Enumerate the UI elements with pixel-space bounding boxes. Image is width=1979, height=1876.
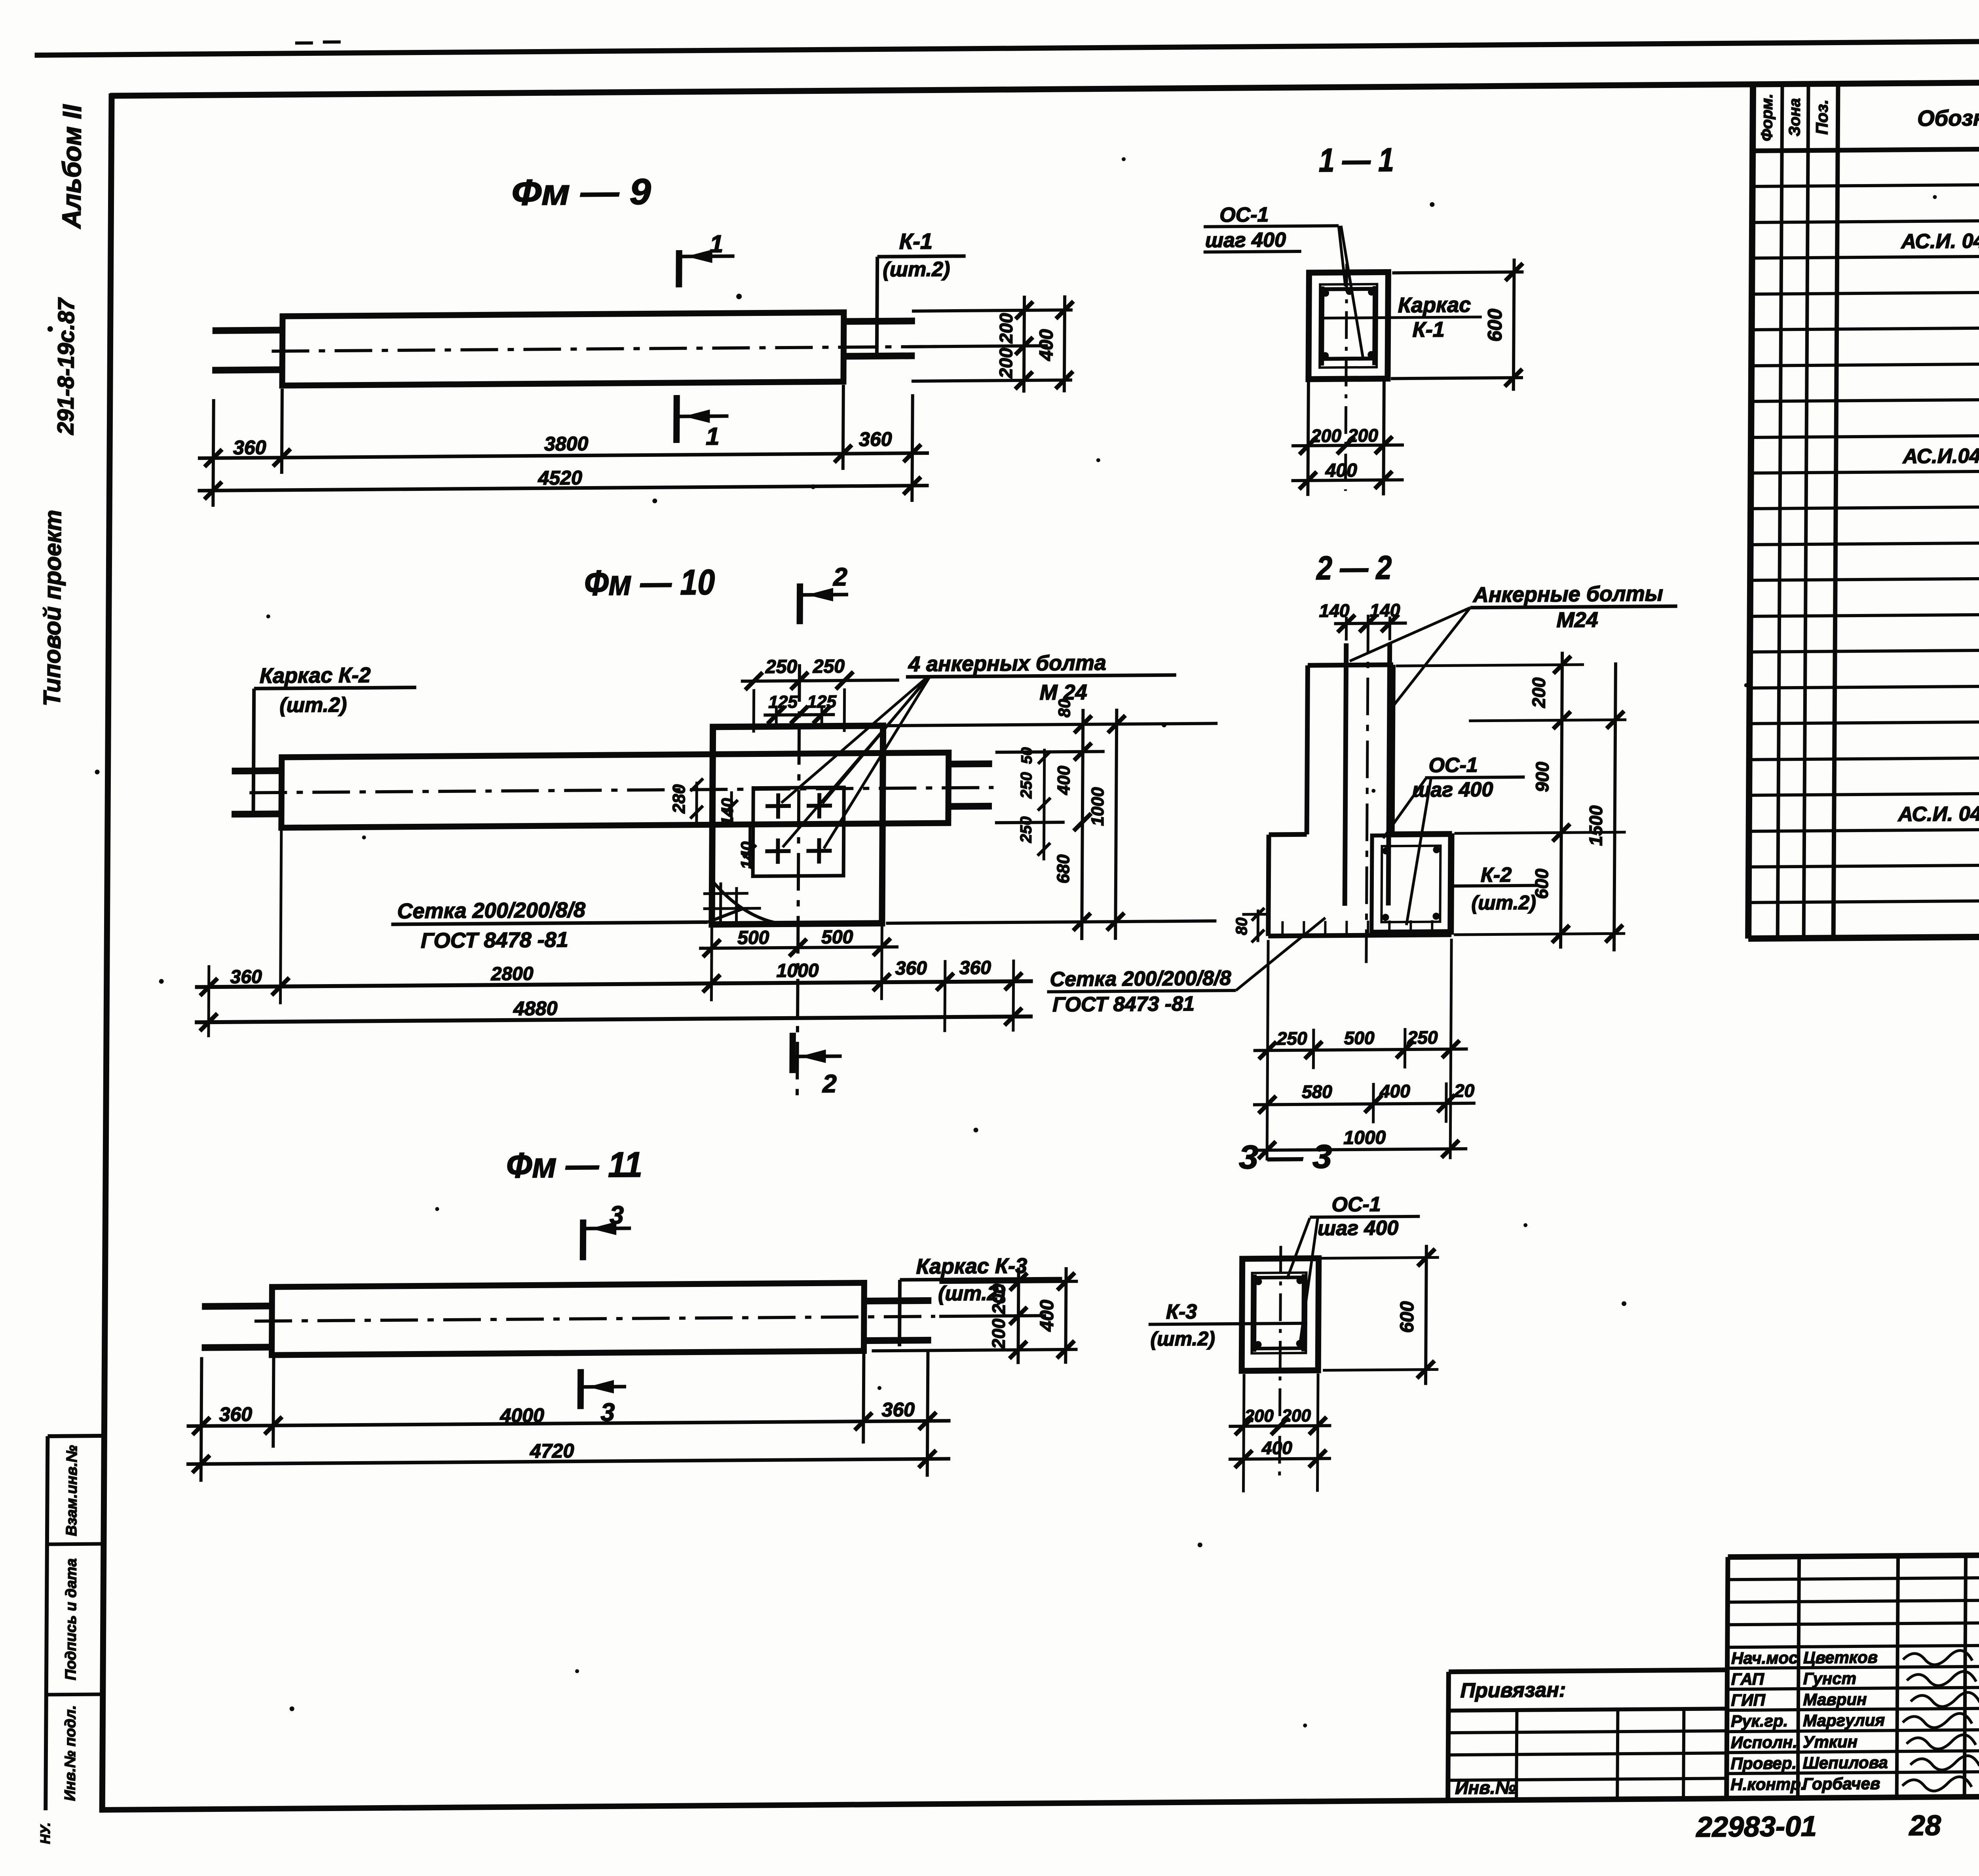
- svg-text:Горбачев: Горбачев: [1802, 1774, 1880, 1793]
- svg-text:580: 580: [1302, 1081, 1332, 1102]
- svg-text:200: 200: [995, 348, 1016, 379]
- svg-text:Фм — 10: Фм — 10: [584, 563, 715, 603]
- svg-text:НУ.: НУ.: [38, 1823, 53, 1844]
- svg-text:1000: 1000: [1343, 1127, 1386, 1148]
- svg-text:Исполн.: Исполн.: [1731, 1733, 1797, 1752]
- svg-text:Нач.мос: Нач.мос: [1731, 1648, 1798, 1667]
- 2-2 dim 200/900/600: [1561, 652, 1562, 948]
- svg-text:200: 200: [1528, 677, 1549, 709]
- svg-text:3 — 3: 3 — 3: [1239, 1138, 1332, 1176]
- svg-text:Каркас: Каркас: [1398, 293, 1471, 317]
- svg-text:Сетка 200/200/8/8: Сетка 200/200/8/8: [397, 898, 585, 923]
- svg-text:Инв.№: Инв.№: [1455, 1777, 1516, 1798]
- svg-text:400: 400: [1036, 329, 1057, 361]
- svg-text:Альбом II: Альбом II: [57, 104, 87, 229]
- svg-text:К-3: К-3: [1166, 1300, 1197, 1324]
- 3-3 dim 600: [1322, 1257, 1439, 1258]
- svg-text:Поз.: Поз.: [1812, 99, 1831, 135]
- Фм-11 bottom extension lines: [201, 1357, 202, 1482]
- svg-text:3800: 3800: [544, 433, 589, 455]
- svg-text:(шт.2): (шт.2): [1150, 1327, 1215, 1350]
- section mark 3 (top): [580, 1220, 587, 1260]
- svg-text:К-1: К-1: [1412, 317, 1445, 342]
- svg-text:ГИП: ГИП: [1731, 1691, 1765, 1710]
- section mark 1 (bottom): [673, 395, 680, 443]
- svg-text:400: 400: [1379, 1081, 1410, 1102]
- svg-text:Н.контр.: Н.контр.: [1730, 1775, 1805, 1794]
- Фм-10 beam outline: [281, 753, 949, 828]
- svg-text:Шепилова: Шепилова: [1803, 1753, 1888, 1772]
- Фм-9 left protruding bars: [213, 330, 283, 331]
- svg-text:22983-01: 22983-01: [1696, 1811, 1817, 1843]
- svg-text:400: 400: [1054, 766, 1073, 795]
- signature rows: [1727, 1666, 1979, 1668]
- svg-text:Провер.: Провер.: [1731, 1754, 1797, 1773]
- svg-text:ГОСТ 8478 -81: ГОСТ 8478 -81: [421, 928, 568, 953]
- Фм-10 vertical axis: [797, 664, 800, 1104]
- svg-text:200: 200: [995, 313, 1016, 344]
- svg-text:Рук.гр.: Рук.гр.: [1731, 1711, 1788, 1730]
- svg-text:шаг 400: шаг 400: [1318, 1216, 1399, 1240]
- svg-text:250: 250: [765, 656, 798, 678]
- svg-text:Каркас К-2: Каркас К-2: [260, 663, 371, 688]
- svg-text:500: 500: [821, 927, 853, 948]
- 2-2 cage box К-2: [1371, 835, 1450, 931]
- Фм-11 dim 200/200: [1018, 1268, 1018, 1364]
- svg-text:1 — 1: 1 — 1: [1319, 141, 1394, 179]
- Фм-10 dims 500|500: [711, 927, 712, 1001]
- Фм-10 left protruding bars: [232, 767, 283, 774]
- section 1-1 bottom dims: [1308, 382, 1309, 496]
- svg-text:ОС-1: ОС-1: [1219, 203, 1269, 227]
- svg-text:200: 200: [1347, 425, 1378, 446]
- svg-text:400: 400: [1261, 1437, 1292, 1458]
- title block top border: [1728, 1551, 1979, 1557]
- svg-text:80: 80: [1233, 918, 1250, 935]
- svg-text:28: 28: [1909, 1809, 1941, 1842]
- section 1-1 dim 600: [1392, 272, 1523, 273]
- svg-text:М24: М24: [1556, 608, 1598, 632]
- scan specks: [736, 294, 742, 299]
- Фм-11 dim 4720: [186, 1459, 950, 1464]
- svg-text:1000: 1000: [777, 960, 819, 981]
- svg-text:К-2: К-2: [1481, 863, 1512, 887]
- 2-2 vertical axis: [1366, 615, 1368, 963]
- Фм-10 horizontal axis: [249, 787, 993, 793]
- 2-2 dim 1000: [1253, 1149, 1467, 1150]
- svg-text:140: 140: [737, 841, 756, 869]
- table header row line: [1753, 145, 1979, 151]
- svg-text:Форм.: Форм.: [1758, 93, 1776, 141]
- Фм-9 dim 200/200 vertical: [1024, 296, 1024, 393]
- Фм-11 right extension lines: [939, 1281, 1078, 1282]
- svg-text:2 — 2: 2 — 2: [1316, 549, 1392, 586]
- svg-text:20: 20: [1454, 1080, 1475, 1101]
- svg-text:Фм — 11: Фм — 11: [506, 1145, 643, 1186]
- svg-text:Цветков: Цветков: [1803, 1648, 1878, 1667]
- svg-text:Гунст: Гунст: [1803, 1669, 1856, 1688]
- svg-text:200: 200: [988, 1318, 1008, 1350]
- svg-text:2: 2: [833, 563, 847, 591]
- 2-2 pedestal: [1307, 665, 1308, 834]
- 2-2 dim 580|400|20: [1253, 1103, 1476, 1105]
- svg-text:Подпись и дата: Подпись и дата: [63, 1558, 80, 1680]
- Фм-11 dim 360|4000|360: [187, 1421, 951, 1426]
- svg-text:360: 360: [219, 1403, 253, 1426]
- Фм-10 small right dims 50/250/250: [1044, 749, 1045, 860]
- svg-text:Взам.инв.№: Взам.инв.№: [63, 1445, 80, 1536]
- margin stamp table (bottom left): [46, 1436, 47, 1810]
- Фм-11 beam axis: [254, 1316, 935, 1321]
- svg-text:400: 400: [1037, 1300, 1058, 1332]
- Фм-11 beam outline: [272, 1283, 864, 1355]
- svg-text:(шт.2): (шт.2): [1471, 891, 1536, 914]
- leader Каркас К-1: [1324, 317, 1482, 318]
- Фм-10 right extension lines: [887, 723, 1217, 726]
- svg-text:ОС-1: ОС-1: [1428, 754, 1478, 777]
- Фм-10 main dim line 360|2800|1000|360|360: [209, 965, 209, 1037]
- svg-text:(шт.2): (шт.2): [279, 694, 347, 717]
- svg-text:140: 140: [1319, 600, 1350, 621]
- svg-text:Фм — 9: Фм — 9: [511, 171, 651, 213]
- svg-text:Привязан:: Привязан:: [1461, 1678, 1566, 1702]
- section mark 2 (bottom): [789, 1033, 796, 1073]
- dims 250|250 above pad: [752, 689, 756, 733]
- Фм-9 right extension lines: [912, 310, 1073, 311]
- svg-text:400: 400: [1325, 460, 1358, 481]
- small vertical dims 280/140/140: [695, 782, 698, 825]
- small dashes above frame: [295, 41, 313, 44]
- svg-text:140: 140: [718, 798, 737, 826]
- title block upper thin rows: [1728, 1578, 1979, 1579]
- svg-text:АС.И. 04.15.00 СБ: АС.И. 04.15.00 СБ: [1897, 802, 1979, 826]
- Фм-9 beam outline: [282, 312, 844, 386]
- svg-text:Инв.№ подл.: Инв.№ подл.: [62, 1705, 79, 1801]
- svg-text:200: 200: [1281, 1406, 1311, 1426]
- svg-text:200: 200: [1244, 1406, 1274, 1426]
- svg-text:360: 360: [859, 428, 892, 450]
- svg-text:К-1: К-1: [899, 228, 933, 254]
- svg-text:250: 250: [813, 656, 845, 677]
- Фм-11 right protruding bars: [863, 1300, 931, 1301]
- svg-text:3: 3: [610, 1201, 624, 1229]
- svg-text:Маргулия: Маргулия: [1803, 1711, 1885, 1730]
- svg-text:600: 600: [1397, 1301, 1418, 1333]
- svg-text:360: 360: [233, 436, 266, 459]
- 2-2 right extension lines: [1396, 665, 1584, 666]
- svg-text:ОС-1: ОС-1: [1331, 1193, 1381, 1216]
- Фм-9 dim 400 vertical: [1064, 295, 1065, 392]
- svg-text:Сетка 200/200/8/8: Сетка 200/200/8/8: [1050, 967, 1231, 991]
- frame left border: [102, 93, 112, 1812]
- footing mesh ticks: [1281, 921, 1284, 934]
- dims 125|125 above pad: [775, 708, 778, 724]
- title block verticals: [1726, 1557, 1728, 1798]
- svg-text:50: 50: [1019, 747, 1035, 764]
- svg-text:1: 1: [706, 423, 720, 450]
- svg-text:Анкерные болты: Анкерные болты: [1472, 582, 1663, 607]
- svg-text:680: 680: [1054, 854, 1073, 884]
- svg-text:2800: 2800: [491, 963, 534, 985]
- svg-text:250: 250: [1407, 1027, 1438, 1048]
- privyazan box: [1449, 1670, 1727, 1672]
- 3-3 outer box: [1242, 1258, 1319, 1371]
- 2-2 dim 1500: [1614, 662, 1616, 951]
- svg-text:1000: 1000: [1088, 787, 1108, 826]
- Фм-11 left protruding bars: [202, 1306, 273, 1306]
- svg-text:360: 360: [959, 957, 991, 979]
- svg-text:4000: 4000: [499, 1404, 544, 1427]
- Фм-9 dim line 4520: [198, 486, 929, 491]
- 2-2 small dim 80 bottom-left: [1257, 910, 1259, 942]
- anchor bolts (plan): [765, 804, 791, 808]
- table column lines: [1778, 84, 1782, 938]
- Фм-11 dim 400: [1065, 1267, 1066, 1364]
- svg-text:АС.И.04.14.00 СБ: АС.И.04.14.00 СБ: [1902, 444, 1979, 468]
- svg-text:360: 360: [895, 958, 927, 979]
- label К-2 (шт.2): [1451, 886, 1539, 886]
- Фм-9 dim line 360|3800|360: [198, 453, 929, 458]
- Фм-9 beam axis line: [272, 346, 936, 351]
- svg-text:ГАП: ГАП: [1731, 1670, 1764, 1689]
- svg-text:360: 360: [230, 966, 262, 988]
- 3-3 bottom dims: [1243, 1374, 1244, 1492]
- svg-text:200: 200: [988, 1283, 1009, 1315]
- svg-text:Обозначение: Обозначение: [1917, 105, 1979, 131]
- svg-text:2: 2: [822, 1069, 837, 1098]
- 2-2 dim 250|500|250: [1253, 1049, 1468, 1051]
- Фм-10 right dim 1000: [1115, 709, 1117, 940]
- svg-text:500: 500: [737, 927, 769, 948]
- Фм-10 right protruding bars: [948, 760, 992, 768]
- svg-text:Типовой проект: Типовой проект: [39, 510, 66, 707]
- sheet outer top scan edge: [35, 38, 1979, 55]
- svg-text:125: 125: [768, 692, 798, 712]
- Фм-10 anchor plate square: [753, 787, 844, 876]
- svg-text:ГОСТ 8473 -81: ГОСТ 8473 -81: [1052, 992, 1195, 1017]
- svg-text:250: 250: [1018, 772, 1035, 799]
- svg-text:шаг 400: шаг 400: [1205, 228, 1286, 252]
- Фм-10 pad outline: [712, 726, 883, 924]
- svg-text:Зона: Зона: [1786, 98, 1804, 137]
- Фм-9 bottom extension lines: [213, 399, 213, 507]
- section mark 2 (top): [797, 584, 803, 624]
- mesh wedge at pad corner: [713, 882, 775, 923]
- svg-text:291-8-19с.87: 291-8-19с.87: [53, 297, 79, 435]
- specification table outline: [1748, 84, 1753, 939]
- Фм-10 right dim 80/400/680: [1082, 709, 1083, 940]
- svg-text:500: 500: [1344, 1028, 1375, 1049]
- svg-text:125: 125: [807, 692, 836, 712]
- svg-text:1500: 1500: [1585, 805, 1606, 846]
- section 1-1 outer box: [1309, 272, 1388, 379]
- svg-text:1: 1: [710, 230, 724, 258]
- svg-text:4880: 4880: [513, 997, 558, 1020]
- svg-text:4 анкерных болта: 4 анкерных болта: [908, 651, 1106, 676]
- section mark 1 (top): [676, 250, 682, 287]
- anchor bolts (section): [1345, 643, 1347, 906]
- frame top border: [110, 79, 1979, 96]
- svg-text:(шт.2): (шт.2): [883, 258, 950, 281]
- svg-text:600: 600: [1483, 308, 1506, 342]
- Фм-10 dim 4880: [195, 1017, 1033, 1023]
- svg-text:250: 250: [1018, 816, 1035, 843]
- svg-text:200: 200: [1310, 425, 1341, 446]
- svg-text:Маврин: Маврин: [1803, 1690, 1867, 1709]
- svg-text:Уткин: Уткин: [1803, 1732, 1857, 1751]
- svg-text:600: 600: [1531, 869, 1552, 899]
- 2-2 footing: [1269, 832, 1307, 837]
- frame bottom border: [99, 1793, 1979, 1810]
- svg-text:140: 140: [1370, 600, 1400, 621]
- svg-text:360: 360: [882, 1399, 915, 1421]
- Фм-9 right protruding bars: [843, 321, 915, 321]
- dims 140|140 above bolts: [1345, 617, 1348, 641]
- svg-text:280: 280: [669, 784, 689, 814]
- svg-text:АС.И. 04.13.00 СБ: АС.И. 04.13.00 СБ: [1900, 229, 1979, 253]
- 3-3 reinforcement cage: [1252, 1273, 1306, 1353]
- 2-2 bottom extension lines: [1267, 940, 1268, 1160]
- svg-text:80: 80: [1055, 699, 1073, 718]
- svg-text:250: 250: [1276, 1028, 1307, 1049]
- section 1-1 reinforcement cage: [1320, 284, 1377, 368]
- section mark 3 (bottom): [577, 1369, 584, 1409]
- svg-text:4720: 4720: [530, 1440, 574, 1462]
- svg-text:4520: 4520: [537, 467, 582, 489]
- svg-text:900: 900: [1532, 762, 1552, 793]
- svg-text:Каркас К-3: Каркас К-3: [916, 1254, 1027, 1279]
